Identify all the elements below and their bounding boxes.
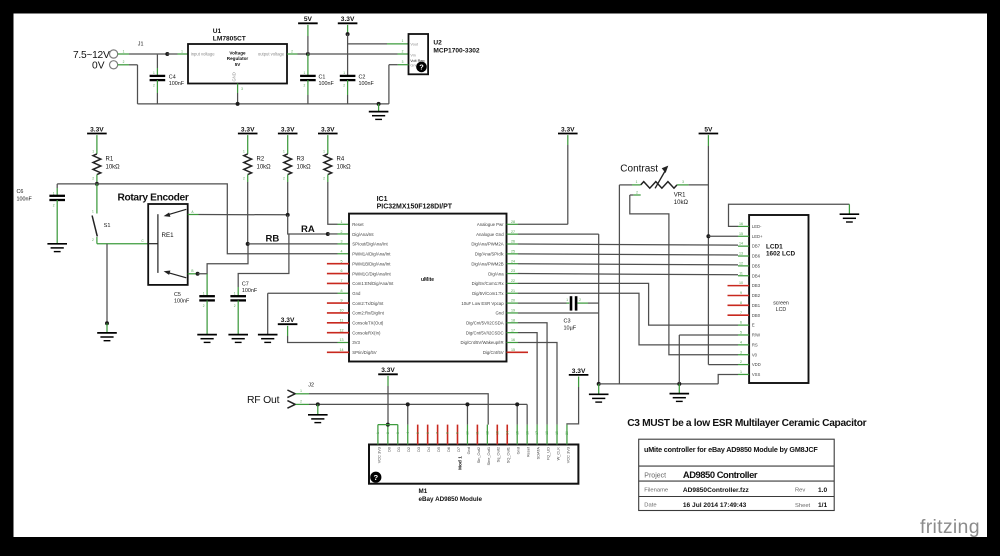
capacitor C1 xyxy=(300,76,316,80)
wire LCD R/W to gnd xyxy=(678,335,680,384)
wire IC pin16 to W_CLK xyxy=(518,343,557,425)
svg-text:LED+: LED+ xyxy=(752,234,763,239)
svg-text:VSS: VSS xyxy=(752,372,761,377)
IC gnd pin8 wire xyxy=(338,292,350,294)
wire encoder common to ground xyxy=(106,244,108,324)
svg-text:11: 11 xyxy=(476,431,480,435)
svg-text:1602 LCD: 1602 LCD xyxy=(766,251,796,258)
svg-text:28: 28 xyxy=(511,220,515,224)
U1 GND pin wire xyxy=(237,84,239,94)
svg-text:1: 1 xyxy=(153,71,155,75)
capacitor C5 plates xyxy=(199,296,215,300)
svg-text:17: 17 xyxy=(535,431,539,435)
svg-text:2: 2 xyxy=(740,360,742,364)
svg-text:7: 7 xyxy=(740,311,742,315)
capacitor C6 xyxy=(49,196,65,200)
svg-text:4: 4 xyxy=(740,340,742,344)
svg-text:AD9850Controller.fzz: AD9850Controller.fzz xyxy=(683,487,750,494)
svg-text:input voltage: input voltage xyxy=(191,52,215,57)
svg-text:1: 1 xyxy=(376,432,380,434)
ground (IC pin8) xyxy=(258,335,278,343)
svg-text:D5: D5 xyxy=(436,447,441,452)
connector J1 pin circles xyxy=(110,50,118,58)
ground rail under LCD xyxy=(599,383,719,385)
svg-text:Rotary Encoder: Rotary Encoder xyxy=(118,193,189,204)
svg-text:6: 6 xyxy=(426,432,430,434)
junction 3.3V stem xyxy=(346,32,350,36)
U2 Gnd wire down to rail xyxy=(398,64,409,66)
svg-text:E: E xyxy=(752,323,755,328)
svg-text:3: 3 xyxy=(682,180,684,184)
regulator U2 xyxy=(409,34,429,74)
svg-text:2: 2 xyxy=(92,177,94,181)
R4 bottom lead xyxy=(327,175,329,182)
svg-text:Com2:Rx/Dig/Int: Com2:Rx/Dig/Int xyxy=(352,311,384,316)
svg-text:B: B xyxy=(191,269,193,273)
svg-text:5: 5 xyxy=(740,331,742,335)
svg-text:10kΩ: 10kΩ xyxy=(674,200,689,206)
svg-text:C5: C5 xyxy=(174,292,181,298)
power symbol 3.3V (module left) xyxy=(378,367,398,374)
svg-text:2: 2 xyxy=(203,304,205,308)
wire junction to C6 xyxy=(57,183,97,185)
VR1 terminal wires xyxy=(632,184,641,186)
svg-text:2: 2 xyxy=(300,400,302,404)
svg-text:21: 21 xyxy=(511,289,515,293)
svg-text:D6: D6 xyxy=(446,447,451,452)
5V stem xyxy=(307,25,309,36)
svg-text:8: 8 xyxy=(341,289,343,293)
R4 top lead xyxy=(327,135,329,154)
svg-text:C1: C1 xyxy=(319,75,326,81)
svg-text:24: 24 xyxy=(511,259,515,263)
svg-text:5: 5 xyxy=(341,259,343,263)
R3 wire down to RA xyxy=(287,182,289,215)
resistor R4 xyxy=(324,154,332,175)
svg-text:Contrast: Contrast xyxy=(620,164,658,175)
svg-text:11: 11 xyxy=(340,318,344,322)
svg-text:?: ? xyxy=(373,473,378,482)
svg-text:D2: D2 xyxy=(406,447,411,452)
svg-text:SPIin/Dig/5V: SPIin/Dig/5V xyxy=(352,350,376,355)
svg-text:C2: C2 xyxy=(359,75,366,81)
svg-text:3.3V: 3.3V xyxy=(281,126,295,133)
ground (C7) xyxy=(228,335,248,343)
svg-text:Project: Project xyxy=(644,472,666,479)
svg-text:16 Jul 2014 17:49:43: 16 Jul 2014 17:49:43 xyxy=(683,502,747,509)
capacitor C7 wire to RA net xyxy=(238,234,289,287)
svg-text:Gnd: Gnd xyxy=(516,447,521,454)
svg-text:Date: Date xyxy=(644,503,656,509)
power symbol 3.3V (R2) xyxy=(238,126,258,133)
svg-text:3.3V: 3.3V xyxy=(90,126,104,133)
module M1 help icon xyxy=(370,472,381,483)
svg-text:Regulator: Regulator xyxy=(227,56,249,61)
svg-text:RE1: RE1 xyxy=(162,232,175,239)
svg-text:Dig/Ana/SPIclk: Dig/Ana/SPIclk xyxy=(475,252,505,257)
svg-text:9: 9 xyxy=(456,432,460,434)
svg-text:2: 2 xyxy=(343,83,345,87)
svg-text:1: 1 xyxy=(243,149,245,153)
svg-text:5V: 5V xyxy=(235,62,242,67)
op-amp/micro IC1 box xyxy=(349,214,507,362)
svg-text:2: 2 xyxy=(53,204,55,208)
svg-text:2: 2 xyxy=(341,230,343,234)
svg-text:Sin_Out2: Sin_Out2 xyxy=(476,447,481,463)
svg-text:U2: U2 xyxy=(433,40,442,47)
svg-text:LM7805CT: LM7805CT xyxy=(213,35,246,42)
wire J2 pin2 ground rail xyxy=(296,403,309,405)
junction RA xyxy=(326,232,330,236)
svg-text:13: 13 xyxy=(495,431,499,435)
junction J2 gnd xyxy=(316,402,320,406)
svg-text:1: 1 xyxy=(53,191,55,195)
svg-text:1: 1 xyxy=(123,49,125,53)
svg-text:8: 8 xyxy=(446,432,450,434)
svg-text:10: 10 xyxy=(340,309,344,313)
svg-text:DB3: DB3 xyxy=(752,283,761,288)
ground (C5) xyxy=(197,335,217,343)
data bus wires to LCD DB7-DB4 xyxy=(518,244,738,245)
svg-text:13: 13 xyxy=(340,338,344,342)
svg-text:12: 12 xyxy=(485,431,489,435)
svg-text:eBay AD9850 Module: eBay AD9850 Module xyxy=(419,496,483,503)
svg-text:DB7: DB7 xyxy=(752,244,761,249)
svg-text:2: 2 xyxy=(386,432,390,434)
svg-text:2: 2 xyxy=(402,49,404,53)
power symbol 3.3V (IC pin13) xyxy=(278,317,298,324)
svg-text:3: 3 xyxy=(402,60,404,64)
svg-text:uMite: uMite xyxy=(421,277,434,283)
R2 bottom lead xyxy=(247,175,249,182)
IC1 left unconnected pins (red) xyxy=(327,263,349,265)
module M1 pin stubs xyxy=(377,425,379,445)
svg-text:output voltage: output voltage xyxy=(258,52,285,57)
svg-text:10µF: 10µF xyxy=(564,325,577,331)
svg-text:D1: D1 xyxy=(396,447,401,452)
wire LCD LED- to gnd (top) xyxy=(729,204,850,226)
svg-text:5V: 5V xyxy=(704,126,713,133)
svg-text:GND: GND xyxy=(232,72,237,81)
wire J1 pin2 down to ground rail xyxy=(118,64,129,66)
svg-text:2: 2 xyxy=(283,177,285,181)
svg-text:7: 7 xyxy=(436,432,440,434)
3.3V stem xyxy=(347,25,349,34)
svg-text:1: 1 xyxy=(636,180,638,184)
svg-text:Com1:EN/Dig/Ana/Int: Com1:EN/Dig/Ana/Int xyxy=(352,281,394,286)
wire 3.3V to U2 Vout xyxy=(348,43,387,45)
C6 bottom lead xyxy=(56,200,58,215)
svg-text:10: 10 xyxy=(466,431,470,435)
VR1 wiper wire to LCD V0 xyxy=(633,194,640,196)
svg-text:3V3: 3V3 xyxy=(352,340,360,345)
svg-text:1: 1 xyxy=(323,149,325,153)
svg-text:100nF: 100nF xyxy=(174,298,190,304)
svg-text:16: 16 xyxy=(739,222,743,226)
svg-text:22: 22 xyxy=(511,279,515,283)
svg-text:10kΩ: 10kΩ xyxy=(297,164,312,170)
svg-text:100nF: 100nF xyxy=(359,81,375,87)
svg-text:DB2: DB2 xyxy=(752,293,761,298)
junction LED+ xyxy=(706,234,710,238)
svg-text:Analogue Pwr: Analogue Pwr xyxy=(477,222,504,227)
svg-text:18: 18 xyxy=(545,431,549,435)
wire IC pin19 gnd xyxy=(518,312,599,314)
svg-text:3.3V: 3.3V xyxy=(321,126,335,133)
svg-text:MCP1700-3302: MCP1700-3302 xyxy=(433,47,480,54)
svg-text:J1: J1 xyxy=(138,42,144,48)
svg-text:1: 1 xyxy=(203,292,205,296)
svg-text:1/1: 1/1 xyxy=(818,502,827,509)
svg-text:11: 11 xyxy=(739,271,743,275)
svg-text:4: 4 xyxy=(406,432,410,434)
svg-text:R1: R1 xyxy=(106,157,114,163)
svg-text:Sheet: Sheet xyxy=(795,503,811,509)
IC1 pin15 unconnected (red) xyxy=(507,351,529,353)
svg-text:14: 14 xyxy=(340,348,344,352)
svg-text:R3: R3 xyxy=(297,157,305,163)
svg-text:2: 2 xyxy=(243,177,245,181)
svg-text:1: 1 xyxy=(402,39,404,43)
svg-text:1: 1 xyxy=(300,389,302,393)
wire IC pin18 to FQ_UD xyxy=(518,323,547,425)
svg-text:25: 25 xyxy=(511,249,515,253)
wire to VDD xyxy=(708,364,738,366)
svg-text:12: 12 xyxy=(739,261,743,265)
svg-text:Vout: Vout xyxy=(410,42,419,46)
svg-text:3.3V: 3.3V xyxy=(281,317,295,324)
svg-text:0V: 0V xyxy=(92,60,105,71)
svg-text:1: 1 xyxy=(283,149,285,153)
svg-text:3.3V: 3.3V xyxy=(561,126,575,133)
ground (C3/analogue) xyxy=(589,394,609,402)
svg-text:15: 15 xyxy=(739,232,743,236)
junction 5V stem xyxy=(306,52,310,56)
resistor R2 xyxy=(244,154,252,175)
svg-text:100nF: 100nF xyxy=(319,81,335,87)
wire IC pin27 analogue gnd down xyxy=(518,233,599,235)
svg-text:Dig/Ana: Dig/Ana xyxy=(488,271,504,276)
svg-text:VDD: VDD xyxy=(752,362,761,367)
svg-text:ConsoleRX(In): ConsoleRX(In) xyxy=(352,330,381,335)
svg-text:RB: RB xyxy=(266,234,280,245)
svg-text:23: 23 xyxy=(511,269,515,273)
svg-text:8: 8 xyxy=(740,301,742,305)
svg-text:VCC 3V3: VCC 3V3 xyxy=(565,447,570,463)
capacitor C3 (Vpcap) xyxy=(518,302,567,304)
svg-text:7.5~12V: 7.5~12V xyxy=(73,50,110,61)
voltage regulator U1 xyxy=(188,44,287,84)
svg-text:R2: R2 xyxy=(257,157,265,163)
border frame redraw (clip overflow) xyxy=(0,0,14,551)
svg-text:D4: D4 xyxy=(426,446,431,452)
svg-text:3.3V: 3.3V xyxy=(241,126,255,133)
svg-text:19: 19 xyxy=(511,309,515,313)
svg-text:C6: C6 xyxy=(17,189,24,195)
svg-text:R4: R4 xyxy=(337,157,345,163)
svg-text:RS: RS xyxy=(752,342,758,347)
capacitor C4 leads xyxy=(156,55,158,68)
capacitor C4 xyxy=(150,76,166,80)
R3 bottom lead xyxy=(287,175,289,182)
R1 top lead xyxy=(96,135,98,154)
svg-text:2: 2 xyxy=(234,304,236,308)
ground rail wire (bottom of PSU) xyxy=(138,103,389,105)
svg-text:3.3V: 3.3V xyxy=(572,368,586,375)
svg-text:4: 4 xyxy=(341,249,343,253)
svg-text:VR1: VR1 xyxy=(674,193,686,199)
U2 help icon xyxy=(416,62,427,73)
3.3V wire to IC pin13 xyxy=(287,326,289,336)
svg-text:fritzing: fritzing xyxy=(920,516,980,538)
svg-text:3: 3 xyxy=(241,87,243,91)
svg-text:16: 16 xyxy=(525,431,529,435)
potentiometer VR1 xyxy=(641,182,677,189)
power symbol 3.3V (top) xyxy=(338,16,358,23)
resistor R3 xyxy=(284,154,292,175)
switch S1 xyxy=(96,184,98,214)
svg-text:DB6: DB6 xyxy=(752,254,761,259)
svg-text:?: ? xyxy=(419,63,424,72)
title block xyxy=(639,439,835,510)
svg-text:10kΩ: 10kΩ xyxy=(337,164,352,170)
VR1 wiper arrow xyxy=(655,172,665,189)
svg-text:Dig/Cnt/5V/Wakeup/IR: Dig/Cnt/5V/Wakeup/IR xyxy=(461,340,504,345)
ground (J2) xyxy=(308,415,328,423)
svg-text:Dig/Ana/Int: Dig/Ana/Int xyxy=(352,232,374,237)
svg-text:screen: screen xyxy=(773,301,789,307)
junction encoder A / R3 xyxy=(286,213,290,217)
svg-text:M1: M1 xyxy=(419,488,428,495)
svg-text:Voltage: Voltage xyxy=(229,50,246,55)
power symbol 3.3V (analogue pwr) xyxy=(558,126,578,133)
R2 top lead xyxy=(247,135,249,154)
svg-text:12: 12 xyxy=(340,328,344,332)
ground (C6) xyxy=(47,244,67,252)
svg-text:1: 1 xyxy=(566,298,568,302)
svg-text:3: 3 xyxy=(341,240,343,244)
svg-text:10uF Low ESR Vpcap: 10uF Low ESR Vpcap xyxy=(461,301,504,306)
svg-text:SQ_Out1: SQ_Out1 xyxy=(506,447,511,463)
LCD1 box xyxy=(749,215,808,383)
svg-text:2: 2 xyxy=(323,177,325,181)
svg-text:Rev: Rev xyxy=(795,488,805,494)
svg-text:W_CLK: W_CLK xyxy=(555,447,560,461)
svg-text:PWM1A/Dig/Ana/Int: PWM1A/Dig/Ana/Int xyxy=(352,252,391,257)
junction R1/S1 xyxy=(95,182,99,186)
svg-text:2: 2 xyxy=(153,83,155,87)
svg-text:20: 20 xyxy=(511,299,515,303)
svg-text:C3: C3 xyxy=(564,318,571,324)
svg-text:1: 1 xyxy=(181,49,183,53)
wire IC pin22 to LCD E xyxy=(518,283,738,325)
svg-text:14: 14 xyxy=(505,431,509,435)
wire IC pin21 to LCD RS xyxy=(518,293,738,345)
svg-text:Gnd: Gnd xyxy=(466,447,471,454)
svg-text:100nF: 100nF xyxy=(17,196,33,202)
power symbol 3.3V (R1) xyxy=(87,126,107,133)
svg-text:Mod 1: Mod 1 xyxy=(458,456,464,470)
svg-text:1: 1 xyxy=(234,292,236,296)
svg-text:C7: C7 xyxy=(242,281,249,287)
svg-text:DB1: DB1 xyxy=(752,303,761,308)
svg-text:PIC32MX150F128DI/PT: PIC32MX150F128DI/PT xyxy=(377,204,453,211)
svg-text:5V: 5V xyxy=(304,16,313,23)
svg-text:PWM1C/Dig/Ana/Int: PWM1C/Dig/Ana/Int xyxy=(352,271,391,276)
junction encoder B / C5 xyxy=(196,272,200,276)
svg-text:6: 6 xyxy=(740,321,742,325)
R2 wire down to RB xyxy=(247,182,249,244)
svg-text:D0: D0 xyxy=(386,446,391,452)
svg-text:13: 13 xyxy=(739,252,743,256)
svg-text:100nF: 100nF xyxy=(169,81,185,87)
svg-text:1: 1 xyxy=(343,71,345,75)
svg-text:2: 2 xyxy=(92,238,94,242)
svg-text:PWM1B/Dig/Ana/Int: PWM1B/Dig/Ana/Int xyxy=(352,261,391,266)
svg-text:RA: RA xyxy=(301,224,315,235)
ground (LED-) xyxy=(840,214,860,222)
svg-text:Analogue Gnd: Analogue Gnd xyxy=(476,232,504,237)
svg-text:IC1: IC1 xyxy=(377,196,388,203)
svg-text:Dig/Ana/PWM2B: Dig/Ana/PWM2B xyxy=(471,261,503,266)
wire IC pin28 to 3.3V xyxy=(518,223,568,225)
svg-text:2: 2 xyxy=(579,298,581,302)
svg-text:18: 18 xyxy=(511,318,515,322)
ground (PSU rail) xyxy=(369,112,389,120)
svg-text:RF Out: RF Out xyxy=(247,395,280,406)
module M1 box xyxy=(369,445,578,484)
svg-text:Dig/5V/Com1:Tx: Dig/5V/Com1:Tx xyxy=(472,291,504,296)
junction LCD gnd xyxy=(677,382,681,386)
svg-text:Sine_Out1: Sine_Out1 xyxy=(486,447,491,465)
svg-text:U1: U1 xyxy=(213,28,222,35)
svg-text:10: 10 xyxy=(739,281,743,285)
svg-text:AD9850 Controller: AD9850 Controller xyxy=(683,469,758,480)
capacitor C2 xyxy=(340,76,356,80)
wire S1 to encoder common xyxy=(97,243,148,245)
junction RB xyxy=(246,242,250,246)
svg-text:LCD1: LCD1 xyxy=(766,243,783,250)
svg-text:Filename: Filename xyxy=(644,488,668,494)
svg-text:Dig/Ana/PWM2A: Dig/Ana/PWM2A xyxy=(471,242,503,247)
svg-text:10kΩ: 10kΩ xyxy=(257,164,272,170)
svg-text:D3: D3 xyxy=(416,447,421,452)
svg-text:VCC 3V3: VCC 3V3 xyxy=(376,447,381,463)
wire IC pin17 to SDATA xyxy=(518,333,537,425)
power symbol 5V (top) xyxy=(298,16,318,23)
svg-text:D7: D7 xyxy=(456,447,461,452)
rotary encoder RE1 xyxy=(148,204,188,285)
svg-text:Reset: Reset xyxy=(352,222,364,227)
svg-text:19: 19 xyxy=(555,431,559,435)
svg-text:3.3V: 3.3V xyxy=(341,16,355,23)
resistor R1 xyxy=(93,154,101,175)
capacitor C1 leads xyxy=(307,54,309,76)
wire J1 pin1 to U1 input xyxy=(118,53,129,55)
svg-text:LCD: LCD xyxy=(776,307,787,313)
svg-text:SDATA: SDATA xyxy=(536,447,541,460)
svg-text:C4: C4 xyxy=(169,75,176,81)
R1 bottom lead xyxy=(96,175,98,182)
svg-text:R/W: R/W xyxy=(752,333,760,338)
capacitor C5 xyxy=(206,274,208,296)
encoder pin A wire xyxy=(188,214,199,216)
svg-text:Gnd: Gnd xyxy=(495,311,504,316)
svg-text:5: 5 xyxy=(416,432,420,434)
svg-text:9: 9 xyxy=(740,291,742,295)
svg-text:SPIout/Dig/Ana/Int: SPIout/Dig/Ana/Int xyxy=(352,242,388,247)
power symbol 5V (LCD) xyxy=(699,126,719,133)
